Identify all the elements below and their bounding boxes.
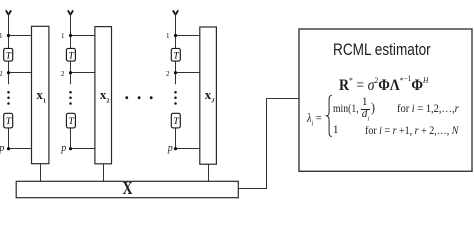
label X — [114, 180, 142, 198]
wire col1 vertical top — [8, 14, 10, 73]
RCML estimator box — [299, 29, 472, 171]
label x1 — [33, 88, 50, 105]
node 2 col3 — [174, 71, 177, 74]
wire tap1 col3 — [176, 35, 200, 37]
label 1 col2 — [55, 32, 65, 40]
wire stub rect x2 to X — [103, 164, 105, 182]
wire tap2 col3 — [176, 72, 200, 74]
wire col2 Tbox2 to junction p — [70, 128, 72, 149]
dots col2 vertical ellipsis — [69, 91, 72, 105]
wire tap2 col2 — [71, 72, 95, 74]
antenna A3 — [173, 10, 178, 14]
wire col2 junction2 to dots — [70, 73, 72, 84]
brace of lambda equation — [327, 95, 332, 137]
row2 value 1 — [333, 125, 339, 136]
buffer rect xJ — [200, 27, 217, 164]
wire tap1 col2 — [71, 35, 95, 37]
fraction denominator — [362, 109, 369, 123]
buffer rect x1 — [32, 26, 49, 163]
wire col3 Tbox2 to junction p — [175, 128, 177, 149]
delay T box col2 second — [66, 113, 75, 128]
svg-text:T: T — [68, 52, 74, 62]
label p col3 — [163, 144, 173, 154]
label 2 col3 — [160, 70, 170, 78]
wire stub rect xJ to X — [208, 164, 210, 181]
node 2 col1 — [7, 71, 10, 74]
svg-text:T: T — [6, 117, 12, 127]
wire stub rect x1 to X — [40, 164, 42, 182]
svg-text:T: T — [173, 117, 179, 127]
svg-text:T: T — [6, 52, 12, 62]
fraction numerator — [362, 97, 368, 108]
wire col3 junction2 to dots — [175, 73, 177, 84]
wire tap1 col1 — [9, 35, 32, 37]
title RCML estimator — [333, 42, 431, 58]
label x2 — [96, 88, 113, 105]
equation lambda lhs — [307, 111, 322, 127]
delay T box col3 second — [171, 113, 180, 128]
wire col1 junction2 to dots — [8, 73, 10, 84]
node 1 col1 — [7, 34, 10, 37]
node 1 col3 — [174, 34, 177, 37]
node p col1 — [7, 147, 10, 150]
label 2 col2 — [55, 70, 65, 78]
row1 condition — [397, 104, 459, 115]
delay T box col1 first — [4, 48, 13, 61]
delay T box col1 second — [4, 113, 13, 128]
wire col3 vertical top — [175, 14, 177, 73]
wire tap2 col1 — [9, 72, 32, 74]
row1 closing paren — [371, 102, 375, 116]
label 2 col1 — [0, 70, 3, 78]
label 1 col1 — [0, 32, 3, 40]
equation R — [339, 76, 428, 94]
label xJ — [201, 88, 218, 105]
wire X to RCML estimator — [238, 99, 298, 189]
label p col2 — [56, 144, 66, 154]
node p col3 — [174, 147, 177, 150]
antenna A1 — [6, 10, 11, 14]
row2 condition — [365, 126, 458, 137]
label p col1 — [0, 144, 4, 154]
wire col1 Tbox2 to junction p — [8, 128, 10, 149]
node 1 col2 — [69, 34, 72, 37]
dots col3 vertical ellipsis — [174, 91, 177, 105]
equation row1 min — [333, 104, 359, 115]
node p col2 — [69, 147, 72, 150]
svg-text:T: T — [173, 52, 179, 62]
antenna A2 — [68, 10, 73, 14]
node 2 col2 — [69, 71, 72, 74]
delay T box col2 first — [66, 48, 75, 61]
dots col1 vertical ellipsis — [7, 91, 10, 105]
label 1 col3 — [160, 32, 170, 40]
wire tap p col3 — [176, 148, 200, 150]
svg-text:T: T — [68, 117, 74, 127]
fraction bar — [361, 109, 371, 110]
X matrix rect — [16, 181, 238, 197]
buffer rect x2 — [95, 27, 112, 164]
delay T box col3 first — [171, 48, 180, 61]
wire col2 vertical top — [70, 14, 72, 73]
wire tap p col2 — [71, 148, 95, 150]
horizontal ellipsis between columns — [125, 96, 152, 99]
wire tap p col1 — [9, 148, 32, 150]
